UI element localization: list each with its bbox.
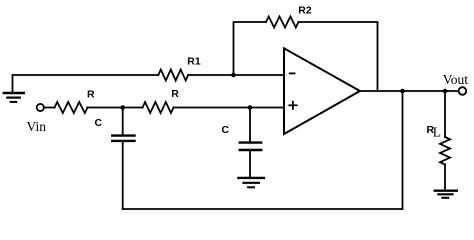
terminal Vout <box>443 72 469 95</box>
resistor R2 <box>266 5 312 28</box>
svg-text:Vout: Vout <box>443 72 469 87</box>
wire (C1 bottom down to bottom rail) <box>122 142 124 209</box>
ground (under RL) <box>435 191 457 198</box>
wire (ground to R1) <box>13 74 159 76</box>
wire (second R to op-amp non-inverting input) <box>174 107 285 109</box>
wire (RL to ground) <box>444 165 446 190</box>
svg-text:C: C <box>222 124 230 136</box>
node B (C2 junction) <box>248 105 253 110</box>
svg-text:R2: R2 <box>298 5 312 17</box>
node A (C1 junction) <box>120 105 125 110</box>
resistor R (input) <box>55 89 96 114</box>
svg-text:R: R <box>171 88 179 100</box>
op-amp U1 <box>284 48 360 134</box>
ground (top-left, inverting input reference) <box>4 75 24 102</box>
wire (top rail right segment down to output) <box>299 22 378 91</box>
wire (R1 to op-amp inverting input) <box>188 74 284 76</box>
wire (output junction down to RL) <box>444 91 446 137</box>
svg-text:Vin: Vin <box>27 119 47 134</box>
svg-text:R1: R1 <box>187 56 201 68</box>
wire (first R to second R) <box>88 107 143 109</box>
wire (bottom rail riser up to output) <box>402 91 404 209</box>
resistor R1 <box>158 56 201 81</box>
terminal Vin <box>27 104 47 134</box>
capacitor C2 <box>222 108 262 177</box>
node (RL tap junction) <box>443 89 448 94</box>
resistor R (second) <box>143 88 180 113</box>
node (output / bottom-rail junction) <box>400 89 405 94</box>
ground (under C2) <box>238 178 264 187</box>
svg-text:R: R <box>87 89 95 101</box>
wire (op-amp output to Vout) <box>358 90 459 92</box>
wire (feedback riser and top rail left segment) <box>234 22 267 75</box>
wire (bottom feedback rail) <box>123 208 403 210</box>
resistor RL <box>427 124 451 165</box>
wire (Vin to first R) <box>44 107 55 109</box>
svg-text:C: C <box>95 117 103 129</box>
node (inverting input junction) <box>231 73 236 78</box>
capacitor C1 <box>95 108 135 141</box>
svg-text:L: L <box>433 125 441 140</box>
